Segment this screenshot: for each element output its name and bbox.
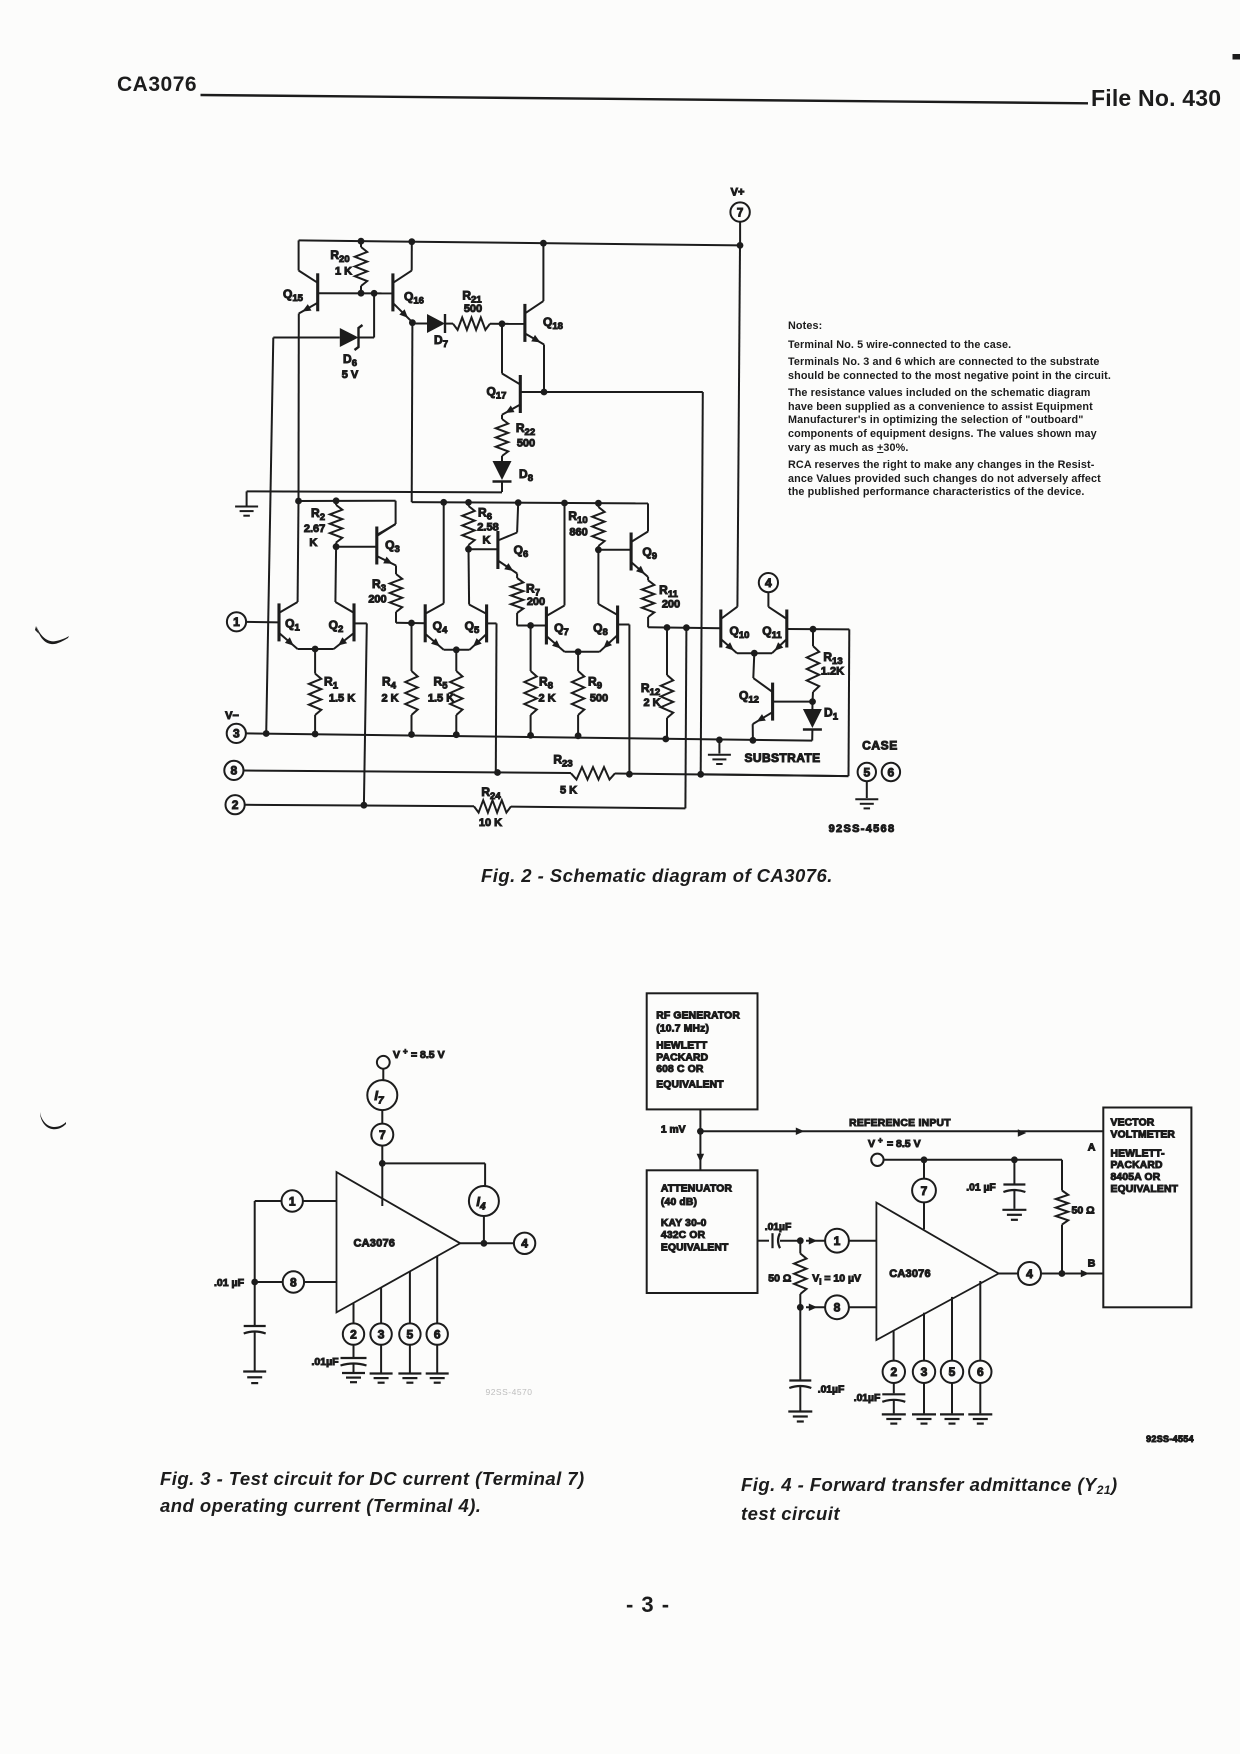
- svg-text:R4: R4: [382, 675, 397, 692]
- wire D6 anode to V- rail: [263, 338, 273, 737]
- wire Q11 base to terminal 8 rail: [701, 629, 850, 776]
- wire Q15 emitter down: [295, 314, 302, 505]
- wire Q15 emitter to Q3 collector: [299, 497, 396, 534]
- fig4 op-amp triangle CA3076: [876, 1203, 998, 1340]
- caption figure 2: [481, 865, 833, 887]
- wire Q17 collector up: [501, 324, 503, 374]
- svg-text:2 K: 2 K: [643, 697, 660, 709]
- fig4 terminal 7: [912, 1160, 936, 1230]
- svg-text:.01µF: .01µF: [854, 1393, 881, 1404]
- wire Q6 collector to bias rail: [517, 503, 518, 533]
- label SUBSTRATE: [744, 751, 820, 765]
- diode D7: [412, 314, 448, 350]
- wire Q6 base from R6: [469, 548, 498, 550]
- transistor Q7: [546, 606, 568, 652]
- svg-text:432C OR: 432C OR: [661, 1230, 706, 1241]
- wire Q17 base line down to terminal 8 rail: [701, 392, 703, 774]
- svg-text:+: +: [403, 1047, 408, 1056]
- wire Q18 collector to rail: [542, 243, 544, 301]
- resistor R22 500: [496, 415, 535, 461]
- transistor Q4: [425, 604, 448, 650]
- svg-text:RF GENERATOR: RF GENERATOR: [656, 1010, 740, 1021]
- svg-text:D1: D1: [824, 706, 839, 723]
- page number: [618, 1592, 678, 1618]
- resistor R1 1.5K: [309, 649, 355, 734]
- terminal 8: [224, 761, 243, 780]
- fig4 capacitor .01uF pin2: [854, 1383, 906, 1413]
- resistor R2 2.67K: [304, 501, 342, 549]
- header file number: [1091, 85, 1221, 112]
- fig4 ground pin3: [912, 1414, 936, 1423]
- svg-text:REFERENCE INPUT: REFERENCE INPUT: [849, 1118, 951, 1129]
- wire Q1 collector up to Q15 emitter: [297, 501, 300, 602]
- fig4 part number 92SS-4554: [1146, 1434, 1194, 1444]
- fig4 ground bottom left: [788, 1412, 812, 1422]
- wire Q10 Q11 common emitter: [737, 650, 772, 657]
- fig3 label .01uF left: [214, 1277, 245, 1289]
- svg-text:500: 500: [517, 438, 535, 450]
- svg-text:1: 1: [834, 1234, 841, 1248]
- header product number CA3076: [117, 73, 197, 97]
- svg-text:R22: R22: [516, 421, 535, 438]
- svg-text:R20: R20: [330, 248, 349, 265]
- svg-text:4: 4: [1026, 1267, 1033, 1281]
- svg-text:.01 µF: .01 µF: [214, 1277, 245, 1289]
- svg-text:Q16: Q16: [404, 290, 424, 307]
- caption figure 3: [160, 1465, 585, 1520]
- svg-text:1 mV: 1 mV: [661, 1125, 686, 1136]
- transistor Q3: [377, 524, 400, 566]
- wire Q16 collector to rail: [411, 242, 413, 271]
- fig3 terminal V+ 8.5V: [377, 1047, 445, 1080]
- fig4 resistor 50 ohm right: [1056, 1191, 1095, 1274]
- node R2 bottom: [333, 543, 340, 550]
- margin ink mark upper: [30, 620, 75, 650]
- fig4 resistor 50 ohm input: [768, 1241, 806, 1311]
- fig3 terminal 7: [371, 1124, 393, 1146]
- fig3 current meter I4: [469, 1186, 499, 1247]
- svg-text:5: 5: [863, 765, 870, 779]
- fig4 box attenuator: [647, 1170, 758, 1293]
- svg-text:7: 7: [379, 1128, 386, 1142]
- svg-text:V+: V+: [731, 187, 745, 199]
- svg-text:608 C OR: 608 C OR: [656, 1064, 704, 1075]
- svg-text:4: 4: [765, 576, 772, 590]
- ground symbol substrate: [708, 740, 731, 764]
- svg-text:92SS-4570: 92SS-4570: [485, 1387, 532, 1397]
- diode D1: [803, 702, 839, 741]
- fig4 pin 3: [913, 1313, 935, 1414]
- resistor R6 2.58K: [462, 502, 498, 549]
- wire Q9 collector to bias rail end: [647, 503, 649, 531]
- svg-text:Q9: Q9: [642, 545, 657, 562]
- wire Q15 collector to rail: [298, 240, 300, 270]
- fig4 label A: [1088, 1142, 1096, 1154]
- transistor Q15: [283, 271, 318, 314]
- svg-text:92SS-4554: 92SS-4554: [1146, 1434, 1194, 1444]
- svg-text:1: 1: [233, 615, 240, 629]
- resistor R7 200: [511, 574, 545, 626]
- svg-text:2: 2: [232, 798, 239, 812]
- fig3 part number 92SS-4570: [485, 1387, 532, 1397]
- fig4 capacitor .01uF input: [765, 1222, 804, 1248]
- node R6 bottom: [465, 546, 472, 553]
- svg-text:Q18: Q18: [543, 315, 563, 332]
- resistor R5 1.5K: [428, 650, 463, 735]
- transistor Q12: [739, 678, 773, 724]
- resistor R24 10K label: [479, 785, 502, 829]
- resistor R3 200: [368, 566, 402, 623]
- terminal 5: [858, 763, 876, 781]
- svg-text:1.2K: 1.2K: [821, 666, 844, 678]
- fig4 attenuator text: [661, 1184, 733, 1254]
- fig3 output wire to terminal 4: [460, 1233, 535, 1254]
- svg-text:1: 1: [289, 1194, 296, 1208]
- fig3 terminal 8: [251, 1271, 336, 1292]
- svg-text:50 Ω: 50 Ω: [768, 1272, 791, 1284]
- svg-text:I7: I7: [374, 1088, 384, 1107]
- transistor Q1: [279, 602, 301, 649]
- svg-text:92SS-4568: 92SS-4568: [829, 823, 896, 835]
- svg-text:V: V: [393, 1049, 400, 1061]
- wire Q12 base to R13 bottom: [773, 698, 816, 705]
- terminal 6: [882, 763, 900, 781]
- wire Q3 base from R2: [336, 546, 377, 548]
- wire Q16 emitter down to bias rail: [411, 323, 414, 502]
- svg-text:2: 2: [350, 1327, 357, 1341]
- svg-text:Q17: Q17: [487, 385, 507, 402]
- fig4 ground top cap: [1002, 1210, 1026, 1220]
- svg-text:D8: D8: [519, 467, 533, 484]
- wire Q8 base down to terminal 8 rail: [618, 625, 630, 775]
- transistor Q9: [631, 532, 657, 578]
- fig4 vector voltmeter text: [1111, 1117, 1179, 1195]
- svg-text:HEWLETT-: HEWLETT-: [1111, 1148, 1166, 1159]
- svg-text:Q12: Q12: [739, 689, 759, 706]
- svg-text:5: 5: [949, 1365, 956, 1379]
- svg-text:R5: R5: [434, 675, 449, 692]
- wire Q17 base to Q18 emitter and right: [520, 391, 703, 393]
- svg-text:6: 6: [888, 765, 895, 779]
- transistor Q5: [465, 604, 487, 649]
- svg-text:VOLTMETER: VOLTMETER: [1111, 1129, 1176, 1140]
- svg-text:2.67: 2.67: [304, 523, 325, 535]
- svg-text:1.5 K: 1.5 K: [428, 693, 454, 705]
- svg-text:8405A OR: 8405A OR: [1111, 1172, 1161, 1183]
- svg-text:.01 µF: .01 µF: [966, 1183, 995, 1194]
- svg-text:V: V: [868, 1138, 875, 1150]
- svg-text:50 Ω: 50 Ω: [1071, 1205, 1094, 1217]
- svg-text:K: K: [309, 537, 317, 549]
- wire Q5 base down to terminal 8 rail: [487, 623, 497, 772]
- header rule: [0, 0, 1240, 120]
- fig4 terminal 1: [806, 1229, 876, 1253]
- resistor R8 2K: [524, 626, 555, 736]
- wire V+ feed to Q10 collector: [737, 245, 740, 606]
- svg-text:Q11: Q11: [762, 624, 782, 641]
- fig3 ground pin2: [342, 1373, 365, 1382]
- svg-text:R24: R24: [481, 785, 501, 802]
- wire terminal 2 rail with R24: [245, 800, 686, 812]
- svg-text:5 V: 5 V: [342, 369, 359, 381]
- node R21 / Q17 collector: [499, 320, 506, 327]
- svg-text:CASE: CASE: [862, 739, 898, 753]
- svg-text:VI = 10 µV: VI = 10 µV: [812, 1272, 861, 1286]
- svg-text:Q15: Q15: [283, 287, 304, 304]
- label part number 92SS-4568: [829, 823, 896, 835]
- fig3 capacitor C1 .01uF: [244, 1282, 266, 1371]
- wire V+ top rail: [299, 238, 744, 249]
- svg-text:2.58: 2.58: [477, 522, 498, 534]
- svg-text:8: 8: [834, 1301, 841, 1315]
- svg-text:200: 200: [662, 599, 680, 611]
- resistor R23 5K label: [553, 753, 577, 797]
- ground symbol left: [235, 491, 258, 515]
- fig4 pin 2: [883, 1330, 905, 1383]
- svg-text:1.5 K: 1.5 K: [329, 693, 355, 705]
- svg-text:CA3076: CA3076: [354, 1238, 396, 1250]
- terminal 4: [759, 573, 778, 592]
- fig3 pin 3: [370, 1288, 391, 1373]
- svg-text:7: 7: [737, 207, 743, 219]
- svg-text:Q7: Q7: [554, 621, 569, 638]
- fig4 ground pin2: [882, 1414, 906, 1423]
- fig4 pin 5: [941, 1297, 963, 1414]
- svg-text:R6: R6: [478, 506, 492, 523]
- wire Q9 base from R10: [598, 549, 631, 551]
- wire Q8 collector to R10 bottom: [597, 550, 599, 604]
- svg-text:EQUIVALENT: EQUIVALENT: [656, 1079, 724, 1090]
- terminal 1: [227, 612, 246, 631]
- svg-text:3: 3: [378, 1327, 385, 1341]
- ground symbol case: [855, 781, 878, 808]
- resistor R12 2K: [641, 628, 673, 740]
- wire R2 bottom to Q2 collector: [334, 547, 337, 602]
- fig4 terminal V+ 8.5V: [868, 1136, 921, 1166]
- svg-text:R9: R9: [588, 675, 602, 692]
- svg-text:= 8.5 V: = 8.5 V: [887, 1138, 921, 1150]
- svg-text:5: 5: [407, 1327, 414, 1341]
- notes text block: [788, 320, 1111, 500]
- svg-text:V−: V−: [225, 710, 239, 722]
- fig4 label B: [1088, 1258, 1096, 1270]
- wire V- rail: [246, 731, 812, 744]
- fig4 label 1 mV: [661, 1125, 686, 1136]
- fig3 terminal 1: [255, 1190, 337, 1282]
- svg-text:R2: R2: [311, 506, 325, 523]
- svg-text:200: 200: [368, 594, 386, 606]
- transistor Q18: [525, 301, 563, 344]
- fig3 op-amp triangle CA3076: [337, 1172, 461, 1312]
- transistor Q10: [721, 607, 750, 654]
- terminal V+ pin 7: [730, 187, 749, 246]
- fig3 pin 5: [399, 1271, 420, 1372]
- wire Q7 collector to bias rail: [564, 503, 566, 606]
- svg-text:R3: R3: [372, 577, 386, 594]
- fig3 pin 6: [427, 1256, 448, 1372]
- fig4 wire RF generator to attenuator: [697, 1109, 705, 1170]
- fig4 ground pin5: [940, 1414, 964, 1423]
- svg-text:KAY 30-0: KAY 30-0: [661, 1218, 707, 1229]
- svg-text:5 K: 5 K: [560, 785, 577, 797]
- svg-text:Q5: Q5: [465, 619, 480, 636]
- svg-text:.01µF: .01µF: [818, 1384, 845, 1395]
- svg-text:Q10: Q10: [730, 624, 750, 641]
- margin ink mark lower: [36, 1108, 72, 1132]
- wire Q4 Q5 common emitter: [444, 646, 470, 653]
- resistor R20 1K: [330, 241, 367, 293]
- resistor R11 200: [642, 577, 680, 627]
- svg-text:6: 6: [977, 1365, 984, 1379]
- wire bias rail: [412, 499, 648, 507]
- resistor R9 500: [572, 652, 608, 736]
- svg-text:SUBSTRATE: SUBSTRATE: [744, 751, 820, 765]
- fig4 box vector voltmeter: [1103, 1108, 1191, 1308]
- transistor Q6: [498, 531, 528, 574]
- wire terminal 8 rail with R23: [244, 767, 849, 779]
- fig4 ground pin6: [968, 1414, 992, 1423]
- svg-text:Q8: Q8: [593, 621, 608, 638]
- fig4 box RF generator: [647, 993, 758, 1109]
- node R10 bottom / Q9 base: [595, 546, 602, 553]
- fig3 wire node to I4: [382, 1163, 485, 1186]
- svg-text:.01µF: .01µF: [765, 1222, 792, 1233]
- svg-text:8: 8: [231, 764, 238, 778]
- transistor Q16: [393, 271, 424, 323]
- svg-text:8: 8: [290, 1275, 297, 1289]
- fig3 ground left: [243, 1372, 266, 1384]
- wire R11 bottom / Q10 base line: [648, 624, 721, 631]
- svg-text:K: K: [483, 535, 491, 547]
- terminal 3 V-: [225, 710, 246, 743]
- fig3 pin 2: [343, 1303, 364, 1345]
- svg-text:VECTOR: VECTOR: [1111, 1117, 1155, 1128]
- fig4 label V1 10uV: [812, 1272, 861, 1286]
- label CASE: [862, 739, 898, 753]
- svg-text:2: 2: [890, 1365, 897, 1379]
- svg-text:R10: R10: [568, 509, 587, 526]
- wire Q1 Q2 common emitter: [298, 646, 334, 653]
- svg-text:Q4: Q4: [433, 619, 448, 636]
- fig4 output wire to terminal 4: [999, 1262, 1104, 1285]
- svg-text:1 K: 1 K: [335, 266, 352, 278]
- wire terminal 2 rail riser: [685, 628, 686, 809]
- svg-text:2 K: 2 K: [538, 693, 555, 705]
- fig3 wire pin7 node: [379, 1146, 386, 1206]
- fig3 ground pin6: [426, 1374, 449, 1383]
- terminal 2: [226, 795, 245, 814]
- fig4 wire V+ rail: [884, 1156, 1062, 1190]
- fig4 terminal 8: [806, 1295, 876, 1319]
- svg-text:B: B: [1088, 1258, 1096, 1270]
- svg-text:PACKARD: PACKARD: [656, 1052, 708, 1063]
- wire terminal 1 to Q1 base: [246, 621, 279, 624]
- wire Q2 base down to terminal 2 rail: [354, 623, 367, 805]
- wire R7 bottom / Q7 base: [517, 622, 546, 629]
- svg-text:D6: D6: [343, 352, 357, 369]
- wire Q15 base / Q16 base: [318, 290, 393, 297]
- fig3 capacitor C2 .01uF: [311, 1345, 366, 1372]
- wire Q12 emitter to V- rail: [750, 724, 757, 744]
- svg-text:7: 7: [921, 1184, 928, 1198]
- fig3 ground pin5: [398, 1374, 421, 1383]
- wire Q5 collector to R6 bottom: [468, 549, 471, 604]
- wire Q12 collector to Q10 Q11 emitters: [753, 653, 754, 678]
- fig4 capacitor .01uF top: [966, 1160, 1025, 1209]
- wire Q4 collector to bias rail: [443, 502, 445, 603]
- wire substrate ground line: [247, 491, 502, 492]
- fig4 label REFERENCE INPUT: [849, 1118, 951, 1129]
- svg-text:A: A: [1088, 1142, 1096, 1154]
- fig4 RF generator text: [656, 1010, 740, 1090]
- svg-text:2 K: 2 K: [381, 693, 398, 705]
- fig3 ground pin3: [370, 1374, 393, 1383]
- transistor Q17: [487, 374, 521, 415]
- fig4 wire attenuator output: [758, 1240, 770, 1242]
- svg-text:Q3: Q3: [385, 538, 400, 555]
- resistor R13 1.2K: [807, 629, 844, 701]
- svg-text:Q1: Q1: [285, 617, 300, 634]
- diode D8: [493, 461, 533, 492]
- svg-text:HEWLETT: HEWLETT: [656, 1040, 708, 1051]
- svg-text:500: 500: [590, 693, 608, 705]
- wire Q7 Q8 common emitter: [565, 648, 600, 655]
- fig4 capacitor .01uF bottom left: [789, 1307, 844, 1410]
- resistor R21 500: [445, 289, 525, 330]
- svg-text:4: 4: [521, 1237, 528, 1251]
- svg-text:EQUIVALENT: EQUIVALENT: [661, 1243, 729, 1254]
- svg-text:6: 6: [434, 1327, 441, 1341]
- fig3 current meter I7: [367, 1080, 397, 1123]
- svg-text:ATTENUATOR: ATTENUATOR: [661, 1184, 733, 1195]
- svg-text:3: 3: [233, 727, 240, 741]
- svg-text:(40 dB): (40 dB): [661, 1197, 697, 1208]
- caption figure 4: [741, 1471, 1118, 1529]
- svg-text:3: 3: [921, 1365, 928, 1379]
- svg-text:Q6: Q6: [514, 543, 529, 560]
- svg-text:R12: R12: [641, 681, 660, 698]
- svg-text:+: +: [878, 1136, 883, 1145]
- transistor Q8: [593, 604, 617, 652]
- resistor R4 2K: [381, 623, 417, 735]
- svg-text:Q2: Q2: [329, 618, 344, 635]
- wire R3 bottom / Q4 base: [396, 620, 425, 627]
- resistor R10 860: [568, 503, 604, 550]
- svg-text:10 K: 10 K: [479, 817, 502, 829]
- node Q16 emitter / D7 anode: [409, 319, 416, 326]
- svg-text:R8: R8: [539, 675, 553, 692]
- svg-text:R1: R1: [324, 675, 339, 692]
- fig4 pin 6: [969, 1281, 991, 1413]
- svg-text:860: 860: [569, 527, 587, 539]
- wire Q11 collector to terminal 4: [767, 592, 769, 607]
- svg-text:200: 200: [527, 596, 545, 608]
- svg-text:EQUIVALENT: EQUIVALENT: [1111, 1184, 1179, 1195]
- wire Q18 emitter down: [541, 345, 548, 396]
- zener diode D6 5V: [273, 293, 374, 381]
- svg-text:I4: I4: [476, 1194, 486, 1213]
- svg-text:500: 500: [464, 303, 482, 315]
- fig4 wire reference input: [700, 1128, 1103, 1137]
- svg-text:(10.7 MHz): (10.7 MHz): [656, 1023, 709, 1034]
- svg-text:R23: R23: [553, 753, 572, 770]
- svg-text:.01µF: .01µF: [311, 1356, 339, 1368]
- svg-text:PACKARD: PACKARD: [1111, 1160, 1163, 1171]
- transistor Q11: [762, 607, 786, 653]
- svg-text:D7: D7: [434, 333, 448, 350]
- transistor Q2: [329, 602, 354, 649]
- svg-text:= 8.5 V: = 8.5 V: [411, 1049, 445, 1061]
